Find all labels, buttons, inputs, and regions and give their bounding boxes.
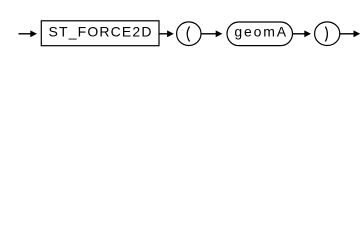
terminal box ST_FORCE2D — [41, 21, 159, 46]
wire ( to geomA — [201, 33, 217, 35]
wire exit — [340, 33, 355, 35]
wire geomA to ) — [293, 33, 306, 35]
circle ( — [177, 22, 201, 46]
arrowhead into ) — [304, 30, 311, 37]
oval geomA — [227, 22, 293, 46]
wire box to ( — [159, 33, 169, 35]
arrowhead into ( — [167, 30, 174, 37]
arrowhead into geomA — [216, 30, 223, 37]
arrowhead exit — [354, 30, 361, 37]
svg-text:ST_FORCE2D: ST_FORCE2D — [49, 23, 153, 39]
wire entry — [19, 33, 32, 35]
label ( — [187, 27, 189, 42]
circle ) — [315, 22, 340, 46]
svg-text:geomA: geomA — [234, 23, 288, 39]
arrowhead into ST_FORCE2D box — [30, 30, 37, 37]
label ) — [325, 27, 327, 42]
background — [0, 0, 362, 58]
